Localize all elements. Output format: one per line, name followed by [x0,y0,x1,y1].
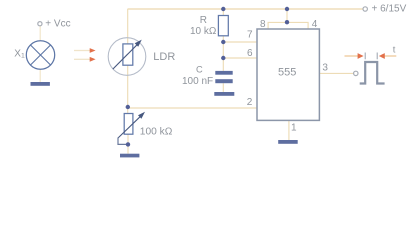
node: pot wiper junction [126,142,130,146]
svg-text:100 kΩ: 100 kΩ [140,127,173,138]
svg-text:C: C [196,64,203,74]
pulse width tick right [376,53,378,60]
pulse width tick left [364,53,366,60]
node: LDR-pot-pin2 junction [126,105,130,109]
light arrows [74,48,96,62]
wire: pin 2 horizontal wire [128,107,257,109]
IC 555 U1 [257,29,319,120]
output pulse waveform [360,62,385,84]
svg-text:t: t [393,44,396,55]
node: bracket junction [285,20,289,24]
svg-text:R: R [200,15,207,26]
ground (555 pin 1) [278,140,298,144]
svg-text:10 kΩ: 10 kΩ [190,26,217,37]
wire: lamp bottom lead [39,69,41,83]
terminal + Vcc [38,22,42,26]
capacitor C [215,71,232,83]
wire: potentiometer bottom lead [127,134,129,154]
wire: pin 6 wire [223,57,256,59]
wire: pin 1 stub [288,120,290,140]
svg-text:7: 7 [247,30,253,41]
svg-text:3: 3 [322,63,328,74]
svg-text:2: 2 [247,97,253,108]
node: rail-R junction [221,7,225,11]
potentiometer 100k [118,112,145,145]
wire: top supply rail [128,8,364,10]
wire: bracket to rail [286,9,288,22]
svg-text:4: 4 [312,19,318,30]
wire: lamp top lead [39,26,41,42]
svg-text:+ Vcc: + Vcc [45,19,70,30]
svg-text:+ 6/15V: + 6/15V [372,4,407,15]
resistor R [218,16,228,36]
svg-text:8: 8 [260,19,266,30]
lamp X1 [26,41,54,69]
node: pin 6 junction [221,56,225,60]
wire: pin 7 wire [223,41,256,43]
wire: left vertical branch (rail to LDR to pot) [127,9,129,114]
ground (potentiometer) [120,154,139,158]
ground (lamp) [31,82,50,86]
ground (capacitor) [214,92,234,96]
wire: R bottom to capacitor top [222,36,224,71]
svg-text:LDR: LDR [153,51,175,63]
wire: capacitor to ground [222,83,224,92]
node: pin 7 junction [221,40,225,44]
pulse width arrow left [345,53,364,59]
svg-text:X1: X1 [14,48,25,59]
wire: R branch vertical (rail to R) [222,9,224,16]
wire: pins 8-4 bracket [268,22,308,29]
svg-text:555: 555 [278,66,296,78]
terminal output pin 3 [354,71,358,75]
node: rail-555 junction [285,7,289,11]
LDR [108,38,146,76]
svg-text:6: 6 [247,48,253,59]
pulse width arrow right [379,53,397,59]
svg-text:100 nF: 100 nF [182,76,213,87]
wire: pin 3 output wire [320,72,354,74]
svg-text:1: 1 [291,123,297,134]
terminal + 6/15V [363,7,367,11]
